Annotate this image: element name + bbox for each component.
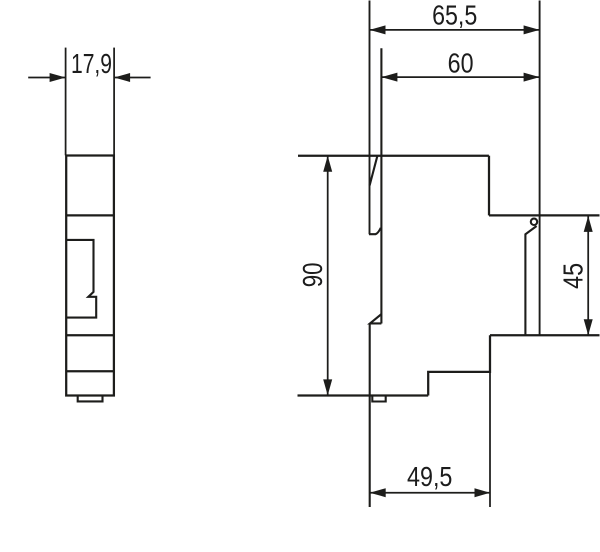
side view lower front face / 49,5 left extension — [369, 324, 371, 508]
side view flange outer / 65,5 60 right extension — [539, 1, 541, 336]
side view front face / 60 left extension — [380, 48, 382, 323]
dim 65,5 arrow right — [524, 25, 540, 34]
dim 65,5 dimension line — [370, 29, 540, 31]
dim 65,5 arrow left — [370, 25, 386, 34]
dim 90 arrow top — [323, 156, 332, 172]
dim 90 arrow bottom — [323, 379, 332, 395]
dim 17,9 dimension line left — [28, 77, 65, 79]
svg-text:49,5: 49,5 — [407, 461, 452, 492]
front view section line top — [66, 214, 114, 216]
dim 60 dimension line — [381, 76, 539, 78]
front view outline — [66, 156, 114, 396]
dim 49,5 arrow left — [370, 488, 386, 497]
front view bottom tab — [78, 396, 103, 402]
svg-text:60: 60 — [448, 47, 474, 78]
side view top step / 45 top extension — [489, 214, 600, 216]
side view bottom tab — [372, 396, 385, 402]
dim 17,9 dimension line right — [114, 77, 151, 79]
front view section line low — [66, 370, 114, 372]
dim 49,5 dimension line — [370, 492, 490, 494]
dim 45 dimension line — [587, 216, 589, 335]
svg-text:90: 90 — [297, 263, 328, 288]
side view bottom step — [428, 335, 490, 395]
dim 49,5 extension right — [489, 372, 491, 507]
dim 60 arrow right — [524, 73, 540, 82]
side view claw bottom hook — [369, 228, 381, 234]
side view top edge with 90 extension — [298, 155, 489, 157]
side view bottom step / 45 bottom extension — [490, 334, 600, 336]
dim 17,9 extension line left — [65, 48, 67, 156]
side view back face top — [488, 156, 490, 216]
svg-text:45: 45 — [558, 263, 589, 289]
side view claw slant — [370, 156, 378, 185]
side view front wedge — [370, 314, 381, 323]
dim 49,5 arrow right — [475, 488, 491, 497]
svg-text:17,9: 17,9 — [71, 48, 112, 79]
dim 17,9 arrow left — [50, 73, 66, 82]
svg-text:65,5: 65,5 — [432, 0, 477, 31]
side view claw outer / 65,5 left extension — [369, 1, 371, 235]
dim 90 dimension line — [327, 156, 329, 396]
front view inner slot — [67, 240, 97, 318]
dim 45 arrow bottom — [584, 319, 593, 335]
dim 60 arrow left — [381, 73, 397, 82]
side view flange pivot circle — [531, 219, 537, 225]
dim 17,9 extension line right — [113, 48, 115, 156]
side view bottom edge with 90 extension — [298, 394, 429, 396]
front view section line mid — [66, 334, 114, 336]
dim 45 arrow top — [584, 216, 593, 232]
dim 17,9 arrow right — [114, 73, 130, 82]
side view flange inner — [525, 226, 536, 335]
